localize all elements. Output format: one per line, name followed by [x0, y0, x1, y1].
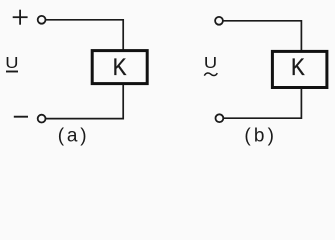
tilde (AC mark) under U (b) [204, 73, 217, 76]
wire (b) bottom: coil to terminal [223, 88, 301, 118]
svg-text:(b): (b) [244, 126, 277, 147]
wire (a) top: terminal to coil [46, 20, 124, 50]
terminal (a) top [38, 16, 46, 24]
terminal (b) top [215, 17, 223, 25]
terminal (b) bottom [216, 114, 224, 122]
wire (b) top: terminal to coil [223, 21, 302, 51]
svg-text:U: U [5, 54, 18, 71]
wire (a) bottom: coil to terminal [45, 85, 123, 119]
svg-text:K: K [113, 54, 127, 81]
svg-text:(a): (a) [58, 126, 90, 147]
terminal (a) bottom [38, 115, 46, 123]
minus sign (-) polarity mark [14, 116, 28, 118]
underline of U (a) [6, 71, 18, 73]
relay coil K (b) box [272, 51, 327, 87]
relay coil K (a) box [92, 51, 147, 84]
plus sign (+) polarity mark [13, 10, 28, 25]
svg-text:U: U [204, 54, 217, 71]
svg-text:K: K [291, 53, 305, 80]
